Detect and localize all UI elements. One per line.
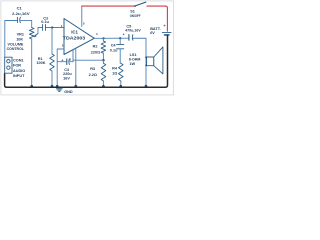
wire pin 3 to ground rail (75, 48, 77, 87)
capacitor C5 (in output line) (129, 35, 132, 40)
feedback wire row (73, 59, 103, 61)
background (0, 0, 175, 100)
wire C4 to R4 (119, 49, 121, 63)
node R3 ground (102, 85, 105, 88)
svg-text:16V: 16V (63, 77, 70, 81)
svg-text:R2: R2 (93, 45, 98, 49)
svg-text:2.2Ω: 2.2Ω (89, 73, 97, 77)
svg-text:VOLUME: VOLUME (8, 42, 24, 46)
wire pin 2 stub and column (57, 49, 64, 87)
svg-text:+: + (123, 32, 125, 36)
capacitor C2 (43, 24, 46, 30)
svg-text:220Ω: 220Ω (91, 51, 100, 55)
supply rail (red) (82, 5, 135, 7)
node output to R2 (102, 37, 104, 39)
op-amp IC1 TDA2003 (64, 19, 94, 55)
svg-text:10K: 10K (16, 37, 23, 41)
svg-text:0.1u: 0.1u (41, 20, 49, 24)
wire R2 to feedback node (102, 53, 104, 60)
resistor R3 (101, 63, 106, 81)
wire wiper to C2 (38, 28, 42, 34)
connector CON1 (5, 57, 12, 73)
wire R1 to ground rail (51, 71, 53, 87)
svg-text:INPUT: INPUT (13, 74, 25, 78)
svg-text:6V: 6V (150, 31, 155, 35)
svg-text:8-OHM: 8-OHM (129, 58, 141, 62)
capacitor C3 (67, 59, 70, 65)
wire output pin 4 row (94, 38, 146, 87)
resistor R1 (50, 54, 55, 71)
svg-text:+: + (61, 59, 63, 63)
svg-text:C1: C1 (17, 6, 23, 11)
node input junction (51, 26, 53, 28)
wire C3 horizontal (57, 61, 73, 63)
wire pin 5 to supply rail (81, 6, 83, 26)
node VR1 ground (30, 85, 33, 88)
wire R3 to ground rail (102, 81, 104, 87)
node R2 R3 feedback (102, 59, 104, 61)
node output to C4 (119, 37, 121, 39)
svg-text:AUDIO: AUDIO (13, 69, 25, 73)
node R1 ground (51, 85, 54, 88)
node pin3 ground (74, 85, 77, 88)
wire output to C4 (119, 38, 121, 44)
svg-text:220u: 220u (63, 72, 72, 76)
wire input left vertical (5, 21, 17, 58)
wire C1 to VR1 top (21, 20, 32, 27)
wire pin 3 column from bottom edge (72, 50, 74, 62)
node speaker ground (145, 85, 148, 88)
switch S1 lever (135, 2, 146, 6)
loudspeaker LS1 (147, 47, 163, 74)
wire output to R2 (102, 38, 104, 41)
svg-text:VR1: VR1 (17, 32, 24, 36)
svg-text:1Ω: 1Ω (112, 72, 117, 76)
svg-text:LS1: LS1 (130, 53, 137, 57)
wire C2 to pin 1 of IC1 (46, 27, 64, 29)
svg-text:470u,16V: 470u,16V (125, 29, 141, 33)
svg-text:CONTROL: CONTROL (7, 47, 25, 51)
border frame (1, 1, 174, 95)
svg-text:GND: GND (64, 90, 73, 94)
wire R4 to ground rail (120, 81, 122, 87)
node R4 ground (119, 85, 122, 88)
svg-text:IC1: IC1 (71, 30, 78, 35)
node pin2 column ground (56, 85, 59, 88)
svg-text:R3: R3 (90, 67, 95, 71)
wire node to R3 (102, 60, 104, 63)
svg-text:2.2u,16V: 2.2u,16V (12, 12, 30, 16)
capacitor C1 (17, 17, 20, 22)
svg-text:100K: 100K (36, 61, 45, 65)
ground rail loop (black): battery negative, rail, CON1 return (5, 36, 168, 87)
svg-text:TDA2003: TDA2003 (63, 36, 86, 41)
capacitor C4 (117, 44, 124, 48)
svg-text:ON/OFF: ON/OFF (130, 14, 141, 18)
supply rail right segment (red) (147, 6, 167, 31)
svg-text:1W: 1W (129, 62, 135, 66)
wire VR1 bottom to ground rail (31, 39, 33, 87)
resistor R2 (101, 41, 106, 53)
svg-text:C3: C3 (64, 68, 69, 72)
svg-text:CON1: CON1 (13, 59, 24, 63)
battery BATT plates (162, 33, 171, 35)
wire junction to R1 (51, 28, 53, 55)
svg-text:0.1u: 0.1u (110, 48, 118, 52)
resistor R4 (119, 63, 124, 81)
potentiometer VR1 (29, 28, 34, 40)
VR1 wiper arrow (35, 33, 38, 36)
ground symbol GND (57, 88, 63, 92)
svg-text:FOR: FOR (13, 64, 21, 68)
